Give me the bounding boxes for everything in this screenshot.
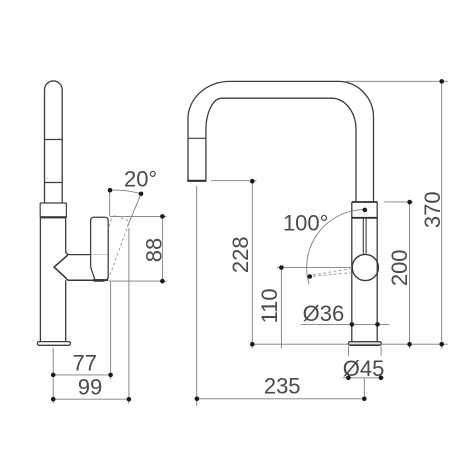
body left edge [39, 217, 41, 341]
svg-text:200: 200 [387, 249, 412, 286]
tube segment lines [45, 140, 63, 183]
collar + column front [352, 202, 377, 342]
body right edge into arm top [66, 217, 91, 254]
svg-text:Ø45: Ø45 [343, 356, 385, 381]
svg-text:99: 99 [78, 375, 102, 400]
collar [40, 203, 66, 217]
20deg ext slanted [128, 194, 142, 227]
dashed lever rotated 20 [92, 215, 130, 280]
front tube segment [188, 137, 206, 139]
110 dim [277, 267, 352, 348]
white fill union of arm+chevron+handle [54, 217, 108, 280]
svg-text:110: 110 [257, 288, 282, 323]
base flange left view [37, 342, 70, 346]
faint arm top line across handle [91, 254, 109, 256]
chevron spout nozzle [54, 255, 108, 280]
handle outline [91, 217, 109, 280]
dia45 dim [343, 346, 384, 399]
spout inner outline [206, 98, 356, 202]
77 dim line [53, 374, 110, 376]
svg-text:100°: 100° [283, 210, 329, 235]
20deg arc [110, 190, 141, 194]
svg-text:235: 235 [264, 374, 301, 399]
88 dim [109, 216, 167, 281]
left bottom ext lines [53, 228, 129, 404]
200 dim [384, 202, 413, 349]
dia36 leader line [301, 323, 390, 325]
spray tube (side view) [45, 81, 63, 203]
base flange front [348, 342, 381, 346]
svg-text:20°: 20° [124, 166, 157, 191]
235 dim [197, 186, 365, 406]
370 dim [346, 81, 448, 348]
base dimension line [252, 343, 448, 345]
svg-text:228: 228 [228, 236, 253, 273]
20deg ext vertical [109, 190, 111, 216]
dashed rotated lever front [313, 268, 353, 276]
outlet bottom [187, 180, 206, 182]
228 dim [211, 181, 257, 349]
rotated lever bottom visible [93, 279, 104, 282]
svg-text:370: 370 [420, 191, 445, 228]
99 dim line [53, 398, 129, 400]
svg-text:Ø36: Ø36 [303, 301, 345, 326]
100deg arc [307, 210, 365, 285]
body right edge below arm [65, 280, 67, 341]
spout outer outline [188, 81, 374, 202]
svg-text:77: 77 [73, 351, 97, 376]
svg-text:88: 88 [142, 238, 167, 262]
lever ball [352, 254, 378, 280]
lever stem front [363, 219, 366, 255]
